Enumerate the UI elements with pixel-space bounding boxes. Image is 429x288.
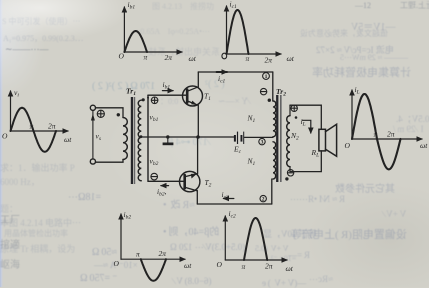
graph i_b2 y-axis [120,214,122,259]
bleed mirrored x10-3A [94,260,138,271]
bleed big row 设偏置电阻 [291,226,407,242]
bleed Va+Vaa row [255,244,289,253]
bleed Rc bottom right [309,274,333,285]
svg-text:ib1: ib1 [163,80,171,91]
bleed mirrored Y8 under T1 [218,96,249,107]
bleed mirrored =750 ohm [80,273,117,284]
svg-text:2π: 2π [159,249,167,258]
svg-text:2π: 2π [265,262,273,271]
center tap dot [140,135,143,138]
svg-text:π: π [374,130,378,139]
svg-text:2: 2 [262,197,265,203]
minus symbol v_b2 [151,173,158,180]
svg-text:π: π [242,262,246,271]
transformer Tr2 core bars [276,95,281,182]
bleed =10x row [271,254,296,263]
svg-text:ωt: ωt [420,141,428,150]
i_b2 arrow below T2 base (left) [161,185,169,187]
readable faint 题: [0,202,18,215]
svg-text:ib1: ib1 [128,0,136,11]
svg-text:ic1: ic1 [218,74,226,85]
svg-text:ωt: ωt [64,135,72,144]
transformer Tr1 core bars [131,97,135,184]
signal source lead line [92,110,94,158]
graph v_i sine curve [11,108,57,152]
bleed mirrored formula Ic=PE/Vex [316,43,394,56]
readable faint 6000 Hz [0,175,40,188]
T1 collector lead [187,72,198,91]
svg-text:ωt: ωt [189,54,197,63]
speaker loop top wire [290,105,321,129]
graph i_L output sine curve [352,94,401,169]
svg-text:iL: iL [301,117,306,128]
left edge gray stamp chars 2 [0,236,20,251]
svg-text:2π: 2π [387,130,395,139]
bleed right edge I/29m [393,124,424,134]
graph i_b2 negative half-sine pulse [141,259,166,281]
bleed 其它元件参数 [335,180,395,195]
bleed Rg= [288,250,310,260]
emitter junction dot [196,135,200,139]
svg-text:2π: 2π [265,56,273,65]
transistor T2 circle [180,171,200,191]
graph i_c2 tall half-sine pulse pi..2pi [244,218,267,260]
node 2 circled [260,195,266,201]
graph i_b2 x-axis [121,258,185,260]
speaker loop bottom wire [290,151,321,172]
svg-text:ωt: ωt [184,261,192,270]
signal source terminal top [90,105,95,110]
bleed right edge Ba 0.5V [396,112,429,125]
bleed-through corner chars top-right [400,0,429,11]
svg-text:N1: N1 [247,157,256,168]
svg-text:N2: N2 [290,131,299,142]
graph i_L y-axis [351,90,353,139]
wire Tr1 secondary top to T1 base [148,94,186,96]
bleed faint (2) near T1 [205,79,225,90]
readable faint 求: 1. 输出功率 [0,161,77,174]
i_b1 arrow above T1 base [163,90,174,92]
svg-text:N1: N1 [247,114,256,125]
T2 emitter arrowhead [191,174,197,179]
Tr2 primary polarity dot [268,99,271,102]
T1 emitter lead with arrow [187,101,198,137]
svg-text:ic2: ic2 [222,190,230,201]
bleed-through row mid faint [148,45,220,58]
svg-text:ib2: ib2 [124,210,132,221]
svg-text:π: π [144,53,148,62]
i_c2 arrow above bottom wire (left) [224,198,234,200]
svg-text:iL: iL [355,85,360,96]
svg-text:π: π [246,54,250,63]
minus symbol at speaker loop bottom [287,170,293,176]
i_L bent arrow [303,120,311,133]
T1 base bar [186,90,189,103]
bleed-through row 0.65A [136,26,210,37]
svg-text:ωt: ωt [286,264,294,273]
readable faint 本图4.2.14 [0,216,81,229]
transformer Tr2 primary lower winding [273,142,276,179]
transformer Tr2 primary upper winding [273,101,276,137]
graph v_i x-axis [11,130,69,132]
svg-text:vs: vs [96,132,101,143]
svg-text:ωt: ωt [287,54,295,63]
bleed-through figure caption top [152,1,214,12]
bleed mirrored 50 ohm [92,247,117,258]
transformer Tr1 secondary spine wire [147,95,149,181]
Tr1 secondary polarity dot [142,98,145,101]
graph i_L x-axis [352,138,422,140]
graph v_i y-axis [10,91,12,131]
Tr2 secondary spine bottom [289,167,291,172]
Tr1 primary polarity dot [117,113,120,116]
node 1 circled [263,73,270,80]
signal source polarity arrow [91,114,95,121]
bleed mirrored small row [300,28,388,39]
plus symbol v_b1 [151,97,158,104]
svg-text:T2: T2 [205,178,212,189]
graph i_c2 y-axis [224,216,226,260]
T1 emitter arrowhead [191,101,197,105]
transformer Tr1 primary winding [123,118,127,160]
graph i_b1 y-axis [123,7,125,52]
bleed-through wavy pen mark left [5,44,49,55]
wire Tr1 secondary bottom to T2 base [148,180,184,182]
svg-text:vb2: vb2 [150,157,159,168]
svg-text:ib2,: ib2, [157,187,167,198]
Tr2 secondary spine top [289,105,291,116]
battery E_c cell bars [234,132,244,144]
wire down into Tr2 primary top [272,72,274,101]
ground junction dot [166,135,169,138]
center line from Tr1 center tap to battery [139,136,234,138]
plus symbol at source [97,110,104,117]
svg-text:O: O [345,141,351,150]
bottom wire T2 collector to Tr2 [197,203,271,205]
svg-text:O: O [119,52,125,61]
wire up into Tr2 primary bottom [271,179,273,204]
svg-text:Tr2: Tr2 [276,87,286,98]
ground stub [167,137,169,143]
graph i_c2 x-axis [225,259,287,261]
svg-text:Tr1: Tr1 [126,87,136,98]
graph i_c1 y-axis [226,6,228,54]
bleed mirrored =18 ohm [68,192,101,203]
readable faint 原理Tr [0,242,75,255]
svg-text:O: O [2,132,8,141]
T2 collector lead [185,187,198,204]
bleed mirrored 170 ohm row near Tr1 [92,81,155,92]
bleed 等于10V [263,227,317,240]
signal source terminal bottom [90,159,95,164]
left edge gray stamp chars 1 [0,211,20,226]
bleed mirrored big row 计算 [312,64,411,80]
bleed V formula right edge [383,209,406,219]
svg-text:π: π [30,122,34,131]
svg-text:Ec: Ec [233,145,242,156]
transistor T1 circle [183,86,203,106]
T2 emitter lead with arrow (up) [185,137,198,177]
graph i_c1 x-axis [227,53,282,55]
wire source top to Tr1 primary [96,108,124,118]
svg-text:O: O [217,260,223,269]
svg-text:3: 3 [261,140,264,146]
svg-text:2π: 2π [48,122,56,131]
page number 12 top right [355,1,371,10]
plus symbol on speaker top wire [291,105,297,111]
N2 lower dot mark [295,116,298,119]
top wire T1 collector to Tr2 [198,71,272,73]
bleed-through faint row S top-left [2,16,80,27]
bleed mirrored fraction row [340,53,408,62]
readable faint 晶体管 [4,228,68,239]
svg-text:ic2: ic2 [229,209,237,220]
bleed-through text row top-left: A=0.975 [3,33,83,44]
left edge gray stamp chars 3 [0,256,20,271]
speaker horn [326,124,337,156]
svg-text:RL: RL [311,148,320,159]
Tr1 secondary winding turns [138,100,141,181]
svg-text:2π: 2π [165,53,173,62]
graph i_c1 tall half-sine pulse [227,10,249,54]
minus symbol below node 1 [260,88,266,94]
bleed faint 0:0 near plus [160,96,178,107]
svg-text:vb1: vb1 [150,113,159,124]
bleed mirrored R 改 [163,196,195,211]
bleed -(Va+Vaa) bottom [262,278,306,288]
graph i_c1 origin ring [222,53,227,59]
svg-text:π: π [136,250,140,259]
T2 base bar [183,175,186,188]
bleed mirrored (0.5+0.3)V 120 [170,242,245,253]
svg-text:O: O [114,259,120,268]
bleed mirrored beta=40 [163,223,219,238]
node 3 circled [259,138,265,144]
svg-text:ic1: ic1 [230,0,238,10]
center line battery to Tr2 center tap [244,136,273,138]
Tr1 spine ink blob [147,97,149,102]
bleed mirrored 170 fragment mid [168,137,209,148]
bleed mirrored -1V=5V [351,18,395,33]
svg-text:T1: T1 [204,92,211,103]
N2 bottom polarity dot [285,177,288,180]
wire source bottom to Tr1 primary [96,160,124,163]
i_c1 arrow on top wire [217,71,228,73]
svg-text:1: 1 [265,74,268,80]
speaker voice-coil rectangle [319,129,326,151]
graph i_b1 half-sine pulse [124,31,147,52]
graph i_b1 x-axis [124,51,182,53]
ground bar [163,143,174,146]
bleed mirrored (6-0.8) [173,276,211,286]
bleed Ra formula left of it [290,194,345,205]
Tr2 secondary winding turns [287,116,290,167]
svg-text:vi: vi [14,88,19,99]
